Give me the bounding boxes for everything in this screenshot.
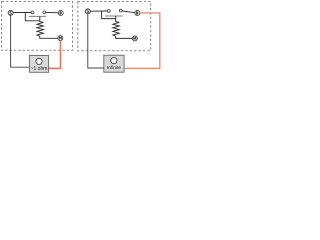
svg-text:Infinite: Infinite [107,65,121,71]
svg-text:~1 ohm: ~1 ohm [31,66,48,72]
